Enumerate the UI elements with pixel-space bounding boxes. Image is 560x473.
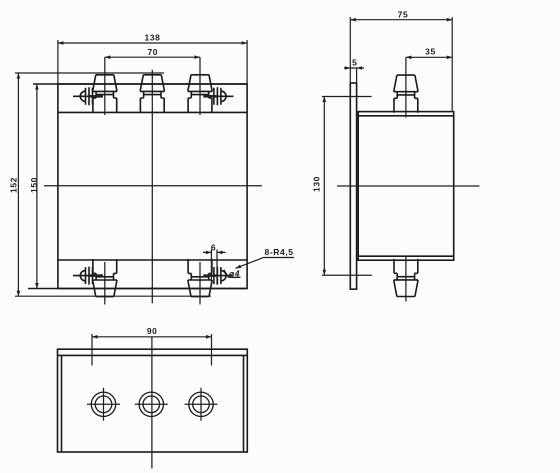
arrows 75 (350, 18, 356, 22)
body (358, 112, 454, 261)
side bushing top (394, 75, 418, 113)
arrows 6 (206, 251, 212, 255)
top band line (plate top ext to left) (33, 83, 247, 85)
side center line (337, 185, 480, 187)
svg-text:75: 75 (398, 10, 409, 20)
svg-text:150: 150 (29, 177, 39, 193)
bottom band line (358, 255, 454, 257)
svg-text:90: 90 (147, 326, 158, 336)
cross lines hole right (185, 388, 218, 421)
side bushing top center line (405, 57, 407, 117)
mounting plate (350, 83, 356, 289)
plate outline (58, 84, 247, 289)
svg-text:6: 6 (211, 243, 216, 253)
bushing T2 (140, 75, 164, 113)
dim 35 (406, 56, 452, 58)
right inner line (243, 355, 245, 452)
cross line hole middle (135, 403, 168, 405)
svg-text:8-R4,5: 8-R4,5 (265, 247, 294, 257)
dim 5 line (344, 67, 364, 69)
arrows 70 (105, 55, 111, 59)
bushing T3 (188, 75, 212, 113)
bolt top-right (203, 87, 233, 105)
top inner line (58, 354, 248, 356)
arrows 35 (406, 56, 412, 60)
leader arrow (236, 265, 242, 269)
svg-text:ø4: ø4 (229, 269, 240, 279)
side bushing bottom (394, 259, 418, 297)
arrows 138 (58, 41, 64, 45)
arrows 150 (35, 84, 39, 90)
dim 6 line (203, 251, 226, 253)
dim 70 line (105, 56, 200, 58)
bushing center line B3 (199, 57, 201, 115)
circle left (91, 392, 115, 416)
ext 5 right (plate right edge up) (356, 68, 358, 83)
outer rect (58, 349, 248, 452)
ext lines 6 (211, 250, 217, 285)
top band line (358, 115, 454, 117)
bushing center line B1 (104, 57, 106, 115)
arrows 5 (outside) (345, 66, 351, 70)
dim 75 (350, 19, 452, 21)
bolt bottom-right (203, 267, 233, 285)
dim 152 vline (17, 73, 19, 296)
main vertical center line (151, 337, 153, 469)
bushing bottom left (93, 259, 117, 297)
svg-text:5: 5 (352, 57, 357, 67)
plate bottom ext (28, 288, 247, 290)
bolt bottom-left (73, 267, 103, 285)
ext lines 138 (58, 40, 247, 84)
arrows 152 (17, 73, 21, 79)
ext right vertical (451, 17, 453, 112)
arrows 130 (323, 97, 327, 103)
bottom bushing center line B5 (199, 262, 201, 305)
ext 152 top (15, 72, 164, 74)
svg-text:152: 152 (8, 177, 18, 193)
bushing T1 (93, 75, 117, 113)
svg-text:35: 35 (425, 47, 436, 57)
ext 75 left (plate left edge up) (349, 17, 351, 83)
svg-text:138: 138 (145, 33, 161, 43)
svg-text:130: 130 (311, 176, 321, 192)
ext lines 90 (92, 334, 212, 366)
vertical center line (151, 70, 153, 304)
svg-text:70: 70 (147, 47, 158, 57)
top bolt center line / 130 ext top (322, 96, 372, 98)
cross lines hole left (87, 388, 120, 421)
side bushing bottom center line (405, 255, 407, 301)
left inner line (61, 355, 63, 452)
dim 90 line (92, 336, 212, 338)
dim 138 line (58, 42, 247, 44)
dim 130 vline (323, 97, 325, 276)
bushing bottom right (188, 259, 212, 297)
leader 8-R4.5 (236, 258, 295, 269)
ext 152 bottom (15, 295, 211, 297)
can bottom edge line (58, 259, 247, 261)
arrows 90 (92, 335, 98, 339)
dim 150 vline (36, 84, 38, 289)
bottom bushing center line B4 (104, 262, 106, 305)
circle middle (139, 392, 163, 416)
horizontal center line (44, 185, 262, 187)
o4 underline and tick (224, 270, 241, 277)
bottom bolt center line / 130 ext bottom (322, 274, 372, 276)
circle right (189, 392, 213, 416)
bolt top-left (73, 87, 103, 105)
can top edge line (58, 111, 247, 113)
